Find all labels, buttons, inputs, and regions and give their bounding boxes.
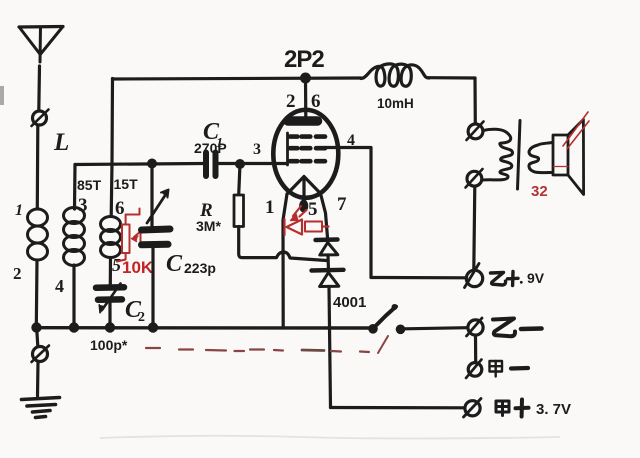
svg-text:2: 2 xyxy=(286,91,296,112)
wire C1 to tube grid xyxy=(216,162,288,165)
svg-text:2P2: 2P2 xyxy=(284,46,324,73)
switch lever xyxy=(376,307,397,327)
wire tube pin7 to diodes xyxy=(321,194,328,238)
svg-text:4: 4 xyxy=(55,276,64,296)
svg-text:223p: 223p xyxy=(184,260,216,276)
wire 223p to rail xyxy=(151,248,154,328)
junction rail-antenna xyxy=(31,322,41,332)
junction rail-C2 xyxy=(105,322,115,332)
label minus xyxy=(521,326,542,331)
resistor R 3M* xyxy=(234,195,244,227)
terminal B- (乙-) xyxy=(467,318,484,336)
wire bus right xyxy=(428,76,475,80)
wire tube pin1 down to rail xyxy=(283,194,287,328)
wire top bus left xyxy=(113,78,362,79)
ground (earth) xyxy=(22,398,60,418)
junction rail-85T xyxy=(69,322,79,332)
svg-text:3M*: 3M* xyxy=(196,218,221,234)
diode red mod (1N34 + resistor) xyxy=(285,206,329,235)
antenna xyxy=(19,27,63,63)
label 甲 (A-) xyxy=(490,361,503,377)
transformer secondary winding xyxy=(529,143,552,173)
junction grid-R xyxy=(235,159,245,169)
svg-text:15T: 15T xyxy=(114,176,139,192)
svg-text:3: 3 xyxy=(253,141,261,158)
wire 85T bottom to rail xyxy=(72,265,75,328)
wire coil L1 to ground rail xyxy=(35,260,39,328)
transformer core xyxy=(518,121,521,190)
svg-text:C: C xyxy=(166,251,183,277)
svg-text:7: 7 xyxy=(337,194,347,215)
tube cathode pin5 with dot xyxy=(302,177,305,207)
red dashed line xyxy=(146,336,388,353)
tube grid rail xyxy=(286,133,289,165)
inductor 85T coil xyxy=(64,208,85,266)
junction rail-223p xyxy=(148,322,158,332)
label 乙 (B) xyxy=(491,273,506,286)
speaker red marks xyxy=(554,112,590,167)
connector (ground plug) xyxy=(32,346,50,363)
wire 223p top lead xyxy=(150,164,153,227)
tube filament xyxy=(287,177,321,195)
connector (transformer bottom) xyxy=(466,169,483,188)
wire tube top lead xyxy=(304,78,307,119)
wire 85T top lead xyxy=(73,165,77,210)
wire antenna to coil L1 xyxy=(36,126,40,208)
svg-text:6: 6 xyxy=(311,91,321,112)
terminal A+ (甲+ 3.7V) xyxy=(464,399,482,418)
photo artifacts xyxy=(0,86,560,439)
wire to ground connector xyxy=(37,330,38,346)
svg-text:100p*: 100p* xyxy=(90,337,128,353)
junction bus-tube xyxy=(300,73,311,84)
svg-text:6: 6 xyxy=(115,198,125,219)
tube grid dashes row1 xyxy=(290,134,325,139)
tube plate bar xyxy=(288,116,318,126)
wire R bottom to diode midpoint (with hop) xyxy=(239,227,327,261)
capacitor C2 variable xyxy=(96,284,124,313)
wire diodes down to bottom rail xyxy=(329,287,331,408)
connector (transformer top) xyxy=(467,122,484,141)
connector (antenna plug) xyxy=(32,110,49,127)
label 乙 (B-) xyxy=(493,319,515,337)
wire 15T pin5 to C2 xyxy=(109,258,112,285)
svg-text:1: 1 xyxy=(265,197,275,218)
svg-text:85T: 85T xyxy=(77,177,102,193)
svg-text:2: 2 xyxy=(138,310,145,325)
transformer primary winding xyxy=(483,129,513,180)
wire grid line (85T top to C1) xyxy=(75,164,203,165)
svg-text:10mH: 10mH xyxy=(377,96,414,111)
junction grid-223p xyxy=(147,159,157,169)
switch contact right xyxy=(396,325,406,335)
wire bus corner down to transformer xyxy=(473,78,476,124)
wire C2 to rail xyxy=(108,303,111,328)
switch lever tip xyxy=(392,304,398,310)
svg-text:2: 2 xyxy=(13,264,22,283)
tube 2P2 envelope xyxy=(273,110,338,198)
wire transformer to B+ terminal xyxy=(474,186,475,270)
svg-text:1: 1 xyxy=(15,202,23,219)
terminal A- (甲-) xyxy=(466,360,482,379)
svg-text:9V: 9V xyxy=(527,270,545,286)
svg-text:3. 7V: 3. 7V xyxy=(536,401,571,418)
label 甲 (A+) xyxy=(496,401,509,416)
switch contact left xyxy=(368,324,378,334)
ground rail xyxy=(36,326,369,330)
capacitor C 223p variable xyxy=(142,190,171,245)
tube grid dashes row2 xyxy=(290,146,325,151)
label plus (A+) xyxy=(516,400,529,417)
wire bus drop to 15T pin6 xyxy=(111,79,112,217)
label dot xyxy=(520,281,523,284)
inductor 10mH xyxy=(361,64,429,86)
wire tube pin4 to B+ xyxy=(325,148,467,278)
svg-text:4001: 4001 xyxy=(333,294,366,311)
inductor L1 antenna coil xyxy=(28,209,48,260)
wire switch to B- terminal xyxy=(405,328,468,329)
speaker xyxy=(553,119,584,194)
svg-text:10K: 10K xyxy=(122,258,154,277)
terminal B+ (乙+ 9V) xyxy=(465,264,483,288)
resistor 10K (red mod) xyxy=(117,209,141,262)
inductor 15T coil xyxy=(101,217,121,258)
bottom rail to A+ xyxy=(331,406,465,409)
capacitor C1 270P xyxy=(206,153,216,177)
wire antenna lead down xyxy=(37,66,41,111)
label minus (A-) xyxy=(511,366,528,371)
label + xyxy=(508,272,519,286)
svg-text:270P: 270P xyxy=(194,140,227,156)
wire B- to A- terminal xyxy=(474,335,477,362)
svg-text:5: 5 xyxy=(308,199,318,220)
diode D2 4001 xyxy=(312,270,344,287)
diode D1 4001 xyxy=(316,240,338,256)
tube grid dashes row3 xyxy=(290,159,325,164)
wire between diodes xyxy=(326,255,330,268)
wire R top lead xyxy=(239,164,240,195)
wire to earth xyxy=(36,362,40,396)
svg-text:L: L xyxy=(53,129,69,156)
svg-text:32: 32 xyxy=(531,183,548,200)
